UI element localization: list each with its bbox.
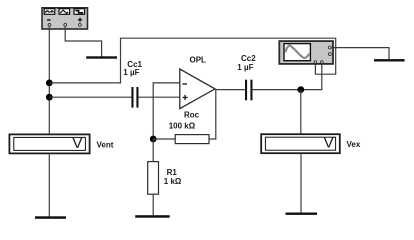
wire op-amp output to Cc2 bbox=[215, 89, 245, 91]
node dot A (signal to scope branch) bbox=[46, 80, 53, 87]
svg-text:Vex: Vex bbox=[347, 140, 361, 149]
wire node D down to Vex meter bbox=[300, 90, 302, 134]
svg-text:Vent: Vent bbox=[97, 140, 114, 149]
op-amp U1 OPL bbox=[180, 56, 215, 109]
voltmeter Vex bbox=[261, 134, 361, 153]
node dot D (output node) bbox=[297, 86, 304, 93]
wire Cc1 to op-amp plus input bbox=[139, 96, 180, 98]
svg-text:1 µF: 1 µF bbox=[123, 68, 139, 77]
wire generator minus terminal down to left bus bbox=[48, 27, 50, 134]
wire node B to Cc1 bbox=[49, 96, 131, 98]
svg-text:V: V bbox=[72, 135, 82, 152]
svg-text:100 kΩ: 100 kΩ bbox=[169, 122, 196, 131]
wire node C to Roc bbox=[153, 138, 175, 140]
svg-text:1 µF: 1 µF bbox=[237, 63, 253, 72]
capacitor Cc1 bbox=[123, 60, 142, 108]
wire Cc2 to output node and scope channel bbox=[253, 63, 322, 89]
ground (Vex) bbox=[286, 213, 318, 215]
wire scope ground terminal to right ground bbox=[331, 48, 389, 60]
svg-text:Roc: Roc bbox=[184, 111, 200, 120]
wire bus from node A up and across top to scope bbox=[49, 38, 335, 83]
svg-text:R1: R1 bbox=[167, 168, 178, 177]
resistor R1 1k bbox=[148, 162, 182, 195]
wire generator common terminal to ground bbox=[65, 27, 101, 57]
node dot B (signal to Cc1) bbox=[46, 94, 53, 101]
node dot C (feedback / R1 node) bbox=[150, 136, 157, 143]
svg-text:V: V bbox=[324, 135, 334, 152]
voltmeter Vent bbox=[9, 134, 113, 153]
resistor Roc 100k bbox=[169, 111, 209, 144]
wire Roc to op-amp output bbox=[209, 90, 216, 139]
wire Vent to ground bbox=[48, 154, 50, 217]
svg-text:Cc2: Cc2 bbox=[241, 54, 256, 63]
wire Vex to ground bbox=[300, 154, 302, 213]
wire inverting input riser to feedback node bbox=[153, 83, 180, 139]
ground (generator common) bbox=[86, 56, 117, 58]
capacitor Cc2 bbox=[237, 54, 256, 100]
function generator XFG1 bbox=[42, 8, 88, 29]
ground (R1) bbox=[135, 215, 170, 218]
ground (scope) bbox=[374, 59, 405, 61]
svg-text:OPL: OPL bbox=[190, 56, 207, 65]
ground (Vent) bbox=[35, 216, 66, 219]
wire R1 to ground bbox=[152, 194, 154, 216]
svg-text:1 kΩ: 1 kΩ bbox=[164, 177, 182, 186]
oscilloscope XSC1 bbox=[279, 41, 333, 64]
wire R1 node down to R1 bbox=[152, 139, 154, 162]
